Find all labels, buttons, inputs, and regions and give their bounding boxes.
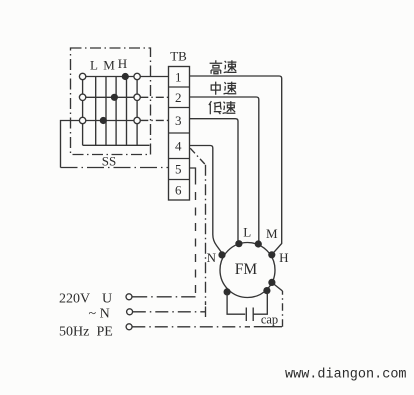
svg-text:~ N: ~ N bbox=[89, 306, 110, 321]
svg-text:L: L bbox=[90, 58, 98, 73]
wire TB2 to motor M bbox=[190, 97, 259, 241]
svg-text:5: 5 bbox=[175, 162, 182, 177]
motor FM body bbox=[220, 243, 275, 298]
motor terminal N bbox=[218, 251, 225, 258]
motor terminal M bbox=[255, 240, 262, 247]
TB divider 4/5 bbox=[169, 158, 190, 160]
svg-text:H: H bbox=[279, 250, 288, 265]
svg-text:FM: FM bbox=[235, 261, 258, 278]
switch SS grid vertical bars bbox=[83, 77, 138, 146]
wire N supply (dash-dot) bbox=[133, 311, 206, 313]
wire TB5 hook bbox=[190, 168, 196, 177]
wire PE supply (dash-dot) bbox=[132, 326, 250, 328]
wire PE diagonal to frame dot bbox=[272, 283, 283, 291]
wire capacitor to capR bbox=[253, 292, 267, 314]
wire TB5 to U terminal (dashed) bbox=[195, 177, 197, 297]
terminal block TB outline bbox=[169, 67, 190, 201]
wire TB1 to motor H bbox=[190, 76, 282, 254]
motor capacitor tap left bbox=[224, 288, 231, 295]
switch SS enclosure (dash-dot box) bbox=[71, 48, 151, 155]
svg-text:U: U bbox=[102, 292, 112, 307]
switch SS row2 right terminal bbox=[134, 94, 140, 100]
wire SS row2 to TB terminal 2 (dash-dot) bbox=[140, 96, 168, 98]
wire SS common to TB terminal 5 (dash-dot) bbox=[61, 167, 169, 169]
svg-text:2: 2 bbox=[175, 90, 182, 105]
TB divider 3/4 bbox=[169, 132, 190, 134]
switch SS row 1 contact line bbox=[83, 76, 138, 78]
switch SS row1 moving contact (H) bbox=[122, 73, 129, 80]
svg-text:www.diangon.com: www.diangon.com bbox=[285, 368, 407, 383]
wire TB3 to motor L bbox=[190, 119, 239, 241]
label 中速 (medium speed) bbox=[211, 82, 236, 95]
TB divider 5/6 bbox=[169, 179, 190, 181]
svg-text:cap: cap bbox=[261, 313, 278, 327]
wire TB4 to N line (dash-dot diagonal) bbox=[190, 148, 205, 165]
motor capacitor tap right bbox=[263, 287, 270, 294]
svg-text:N: N bbox=[207, 250, 217, 265]
TB divider 1/2 bbox=[169, 86, 190, 88]
wire N line vertical (dash-dot) bbox=[205, 165, 207, 305]
wire capL to capacitor bbox=[227, 294, 245, 315]
svg-text:3: 3 bbox=[175, 113, 182, 128]
wire N junction tick bbox=[205, 307, 207, 318]
svg-text:4: 4 bbox=[175, 138, 182, 153]
switch SS row3 left terminal bbox=[79, 117, 85, 123]
wire TB4 to motor N bbox=[190, 146, 223, 254]
supply terminal U bbox=[126, 294, 132, 300]
label 低速 (low speed) bbox=[209, 101, 236, 114]
svg-text:H: H bbox=[118, 56, 127, 71]
wire PE vertical to motor frame (dash-dot) bbox=[282, 291, 284, 327]
switch SS row 3 contact line bbox=[83, 120, 138, 122]
svg-text:M: M bbox=[266, 226, 278, 241]
wire SS row3 left lead bbox=[61, 121, 80, 168]
switch SS grid bottom bar bbox=[83, 144, 150, 146]
supply terminal PE bbox=[126, 324, 132, 330]
wire SS row3 to TB terminal 3 (dash-dot) bbox=[140, 119, 168, 121]
label 高速 (high speed) bbox=[210, 60, 237, 73]
capacitor left plate bbox=[245, 308, 247, 322]
svg-text:6: 6 bbox=[175, 182, 182, 197]
switch SS row2 moving contact (M) bbox=[111, 94, 118, 101]
switch SS row3 right terminal bbox=[134, 117, 140, 123]
cap label underline (PE long dash) bbox=[254, 326, 282, 328]
svg-text:220V: 220V bbox=[59, 292, 90, 307]
switch SS row2 left terminal bbox=[79, 94, 85, 100]
svg-text:L: L bbox=[243, 225, 251, 240]
switch SS row 2 contact line bbox=[83, 96, 138, 98]
supply terminal N bbox=[127, 309, 133, 315]
svg-text:M: M bbox=[103, 58, 115, 73]
svg-text:50Hz: 50Hz bbox=[59, 325, 89, 340]
wire U to TB5 (dash-dot) bbox=[132, 296, 195, 298]
TB divider 2/3 bbox=[169, 107, 190, 109]
wire SS row1 to TB terminal 1 bbox=[140, 76, 168, 78]
motor frame PE dot bbox=[268, 279, 275, 286]
svg-text:PE: PE bbox=[97, 325, 113, 340]
svg-text:TB: TB bbox=[170, 49, 187, 64]
svg-text:SS: SS bbox=[102, 154, 116, 169]
switch SS row1 right terminal bbox=[134, 73, 140, 79]
motor terminal L bbox=[235, 240, 242, 247]
switch SS row3 moving contact (L) bbox=[100, 117, 107, 124]
switch SS row1 left terminal bbox=[79, 73, 85, 79]
motor terminal H bbox=[268, 251, 275, 258]
capacitor right plate bbox=[252, 308, 254, 322]
svg-text:1: 1 bbox=[175, 69, 182, 84]
